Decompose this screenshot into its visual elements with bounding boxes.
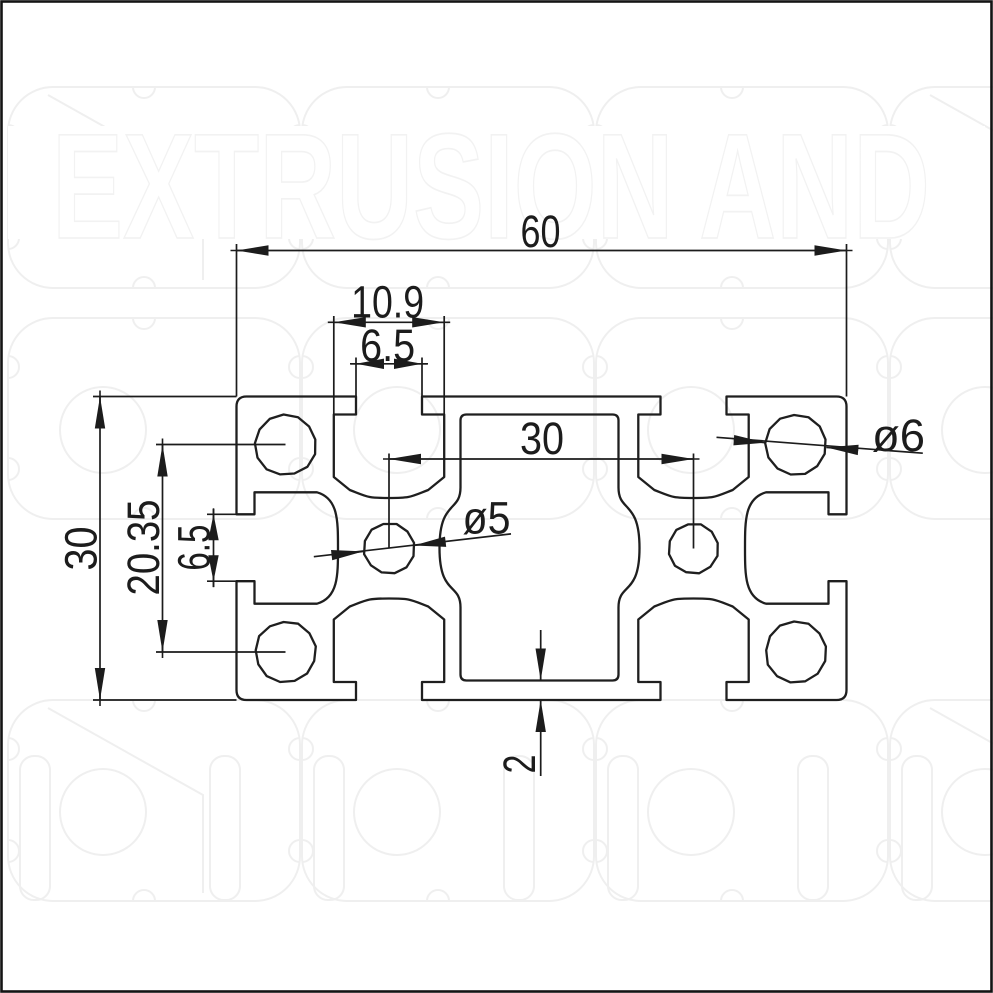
corner hole top-right (diameter 6) (765, 415, 825, 475)
svg-text:30: 30 (55, 527, 106, 571)
dim 10.9 extension line right (443, 316, 445, 415)
dim 30 left arrow bottom (95, 668, 105, 700)
center hole left (diameter 5) (364, 524, 414, 573)
svg-text:20.35: 20.35 (118, 500, 169, 596)
dim 2 lower line and arrow (540, 700, 542, 776)
dim 6.5 left arrow top (208, 514, 218, 540)
dim 30 mid extension line left (to hole center) (388, 454, 390, 549)
dim dia6 arrow left (733, 435, 765, 445)
dim 30 left arrow top (95, 397, 105, 429)
svg-text:30: 30 (520, 413, 564, 464)
dim 60 arrow right (815, 245, 847, 255)
dim 20.35 arrow top (157, 445, 167, 477)
dim 6.5 top arrow right (394, 359, 422, 369)
dim dia6 leader line (717, 437, 923, 453)
dim 30 mid extension line right (to hole center) (693, 454, 695, 549)
dim 6.5 top line (351, 363, 427, 365)
dim 6.5 top arrow left (356, 359, 384, 369)
svg-text:6.5: 6.5 (169, 525, 220, 571)
dim 60 extension line right (846, 244, 848, 397)
dim dia6 arrow right (826, 445, 858, 455)
corner hole bottom-right (diameter 6) (766, 622, 826, 683)
dim 10.9 line (334, 321, 444, 323)
dim 30 mid arrow right (662, 454, 694, 464)
dim 30 left extension line bottom (93, 699, 237, 701)
corner hole bottom-left (diameter 6) (256, 622, 316, 682)
watermark text band blank (8, 126, 985, 239)
dim 20.35 extension line bottom (to circle center) (156, 651, 286, 653)
dim 6.5 left arrow bottom (208, 555, 218, 581)
dim 30 left line (99, 397, 101, 701)
watermark row bottom (8, 700, 993, 901)
center hole right (diameter 5) (669, 524, 718, 573)
watermark tiled logo row top (8, 87, 993, 288)
dim dia5 arrow right (414, 537, 446, 547)
dim dia5 arrow left (331, 550, 363, 560)
dim 6.5 left line (213, 509, 215, 587)
svg-text:ø5: ø5 (463, 493, 511, 544)
dim 60 line (237, 250, 847, 252)
dim 10.9 arrow right (412, 317, 444, 327)
svg-text:2: 2 (494, 755, 545, 774)
dim 20.35 arrow bottom (157, 620, 167, 652)
dim 6.5 left extension line top (207, 513, 255, 515)
dim 60 arrow left (237, 245, 269, 255)
dim 6.5 top extension line left (355, 358, 357, 397)
dim 6.5 top extension line right (421, 358, 423, 397)
svg-text:ø6: ø6 (872, 410, 925, 461)
profile outline: 6030 aluminium extrusion cross-section (237, 397, 847, 701)
dim 2 upper line and arrow (540, 630, 542, 681)
dim 6.5 left extension line bottom (207, 580, 255, 582)
dim 10.9 arrow left (334, 317, 366, 327)
dim 60 extension line left (236, 244, 238, 397)
dim 20.35 line (162, 445, 164, 653)
dim dia5 leader line (314, 534, 511, 557)
svg-text:6.5: 6.5 (360, 320, 415, 371)
svg-text:EXTRUSION AND: EXTRUSION AND (52, 102, 930, 270)
watermark row middle (8, 318, 993, 519)
dim 10.9 extension line left (333, 316, 335, 415)
dim 30 mid arrow left (389, 454, 421, 464)
corner hole top-left (diameter 6) (255, 415, 315, 475)
svg-text:60: 60 (521, 206, 561, 257)
dim 20.35 extension line top (to circle center) (156, 444, 286, 446)
dim 30 left extension line top (93, 396, 237, 398)
central cavity (440, 415, 640, 681)
dim 30 mid line (389, 458, 694, 460)
